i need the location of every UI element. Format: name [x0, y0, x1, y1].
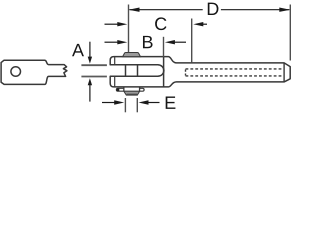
jaw tip chamfer line top plate [114, 57, 116, 65]
tang hole [11, 67, 21, 77]
dimension E extension lines (pin diameter) [124, 98, 126, 112]
washer left tab [116, 88, 123, 91]
dimension B right extension line [163, 37, 165, 57]
dimension A down arrow [89, 42, 91, 58]
dimension A label [72, 44, 84, 56]
dimension E right arrow [146, 102, 160, 104]
dimension D line with arrows [130, 9, 203, 11]
tang plate (left mating part with break) [1, 60, 67, 84]
dimension C right extension line [191, 19, 193, 63]
pin boss below jaw [123, 87, 125, 91]
dimension A extension lines (jaw gap) [81, 64, 107, 66]
cotter pin head [117, 88, 120, 91]
dimension C label [155, 17, 166, 30]
shared left extension line (pin centre) [128, 5, 130, 53]
dimension D label [208, 3, 219, 15]
dimension D right extension line [289, 5, 291, 61]
hidden bore end cap [185, 70, 187, 76]
washer right tab [140, 88, 145, 91]
clevis pin head [123, 53, 141, 57]
dimension B label [143, 36, 153, 48]
jaw tip chamfer line bottom plate [114, 76, 116, 87]
dimension B left arrow [105, 41, 121, 43]
shank chamfer edge line [283, 63, 285, 82]
nut / pin tip [124, 91, 140, 95]
fork body with swage shank (outer profile and slot) [110, 57, 290, 87]
dimension B right arrow [173, 41, 187, 43]
dimension E left arrow [102, 102, 116, 104]
dimension E label [166, 97, 176, 109]
hidden bore line top [186, 68, 283, 70]
dimension A up arrow [89, 85, 91, 102]
dimension C left arrow [105, 23, 121, 25]
dimension C right arrow [201, 23, 207, 25]
fork head right face line [163, 57, 165, 87]
pin shank through slot [125, 65, 127, 77]
hidden bore line bottom [186, 75, 283, 77]
